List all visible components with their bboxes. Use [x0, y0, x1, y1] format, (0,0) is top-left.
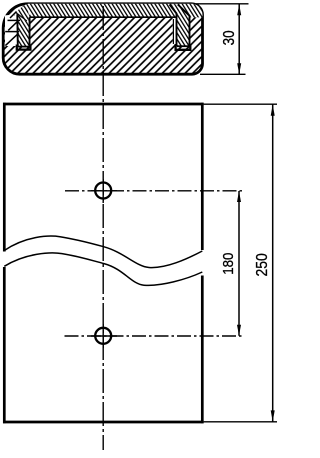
left cells sparse hatch strokes — [8, 22, 17, 31]
strip inner boundary line — [29, 16, 177, 18]
left channel: dense hatch — [17, 15, 29, 47]
svg-text:180: 180 — [221, 252, 238, 274]
right clearance line — [172, 19, 174, 44]
facing sheet: top strip dense hatch — [24, 4, 203, 18]
section view: body outline with hatch fill — [3, 4, 202, 74]
left fold line — [17, 14, 27, 21]
left channel foot — [17, 45, 31, 50]
left corner wrap wedge dense hatch — [14, 5, 30, 21]
right edge segments — [201, 103, 204, 250]
bottom edge — [3, 421, 204, 424]
vertical centerline through both views — [102, 6, 104, 450]
right channel: dense hatch — [170, 5, 190, 47]
left edge segments — [3, 103, 6, 252]
white-out: left cells region — [5, 14, 17, 46]
svg-text:250: 250 — [253, 253, 271, 276]
right channel foot — [176, 44, 191, 50]
left cells boundary lines — [8, 19, 21, 21]
hole 1 — [95, 183, 111, 199]
top edge (also 250 ext) — [3, 103, 204, 106]
svg-text:30: 30 — [221, 30, 238, 45]
left channel walls — [16, 14, 19, 46]
right fold diagonals — [170, 4, 177, 46]
wavy break lines — [4, 236, 202, 268]
hole 2 — [95, 328, 111, 344]
white-out: right clearance sliver — [173, 17, 177, 45]
